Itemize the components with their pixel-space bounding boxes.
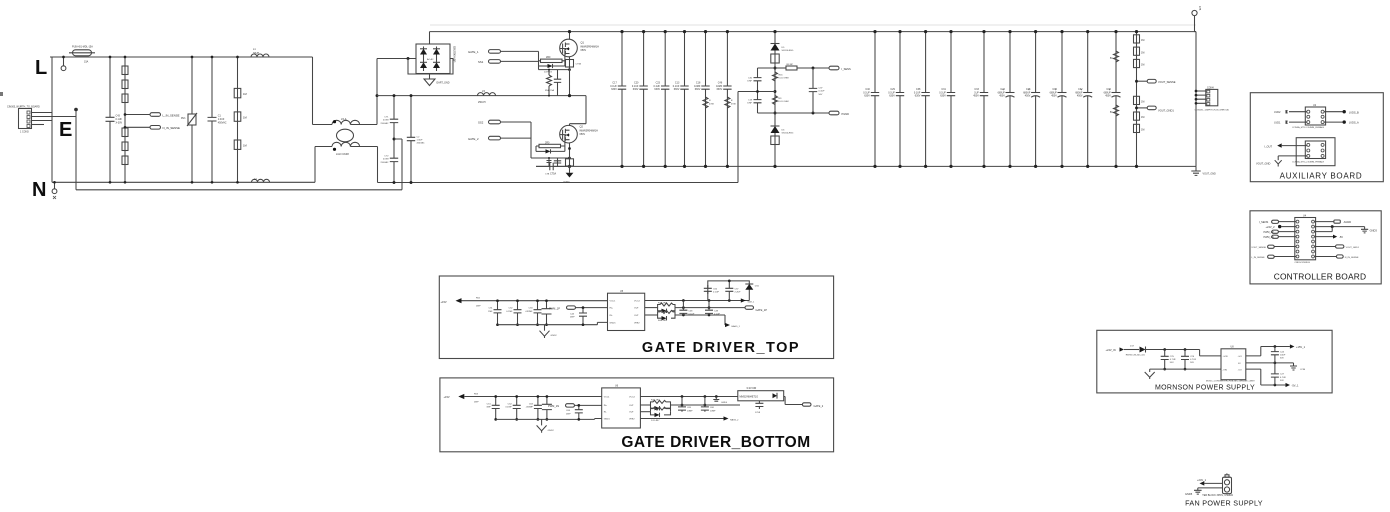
svg-text:LVD1: LVD1 bbox=[1274, 121, 1281, 125]
svg-text:4.7UF: 4.7UF bbox=[1280, 377, 1287, 379]
svg-text:472M: 472M bbox=[383, 120, 389, 122]
wire +VO riser bbox=[1246, 347, 1290, 356]
ground GND2 top driver bbox=[540, 325, 558, 338]
CONTROLLER BOARD box bbox=[1250, 211, 1381, 284]
wire earth riser to Y-cap mid bbox=[394, 139, 402, 190]
GATE DRIVER_TOP box bbox=[439, 276, 833, 359]
svg-text:COM: COM bbox=[1300, 369, 1305, 371]
node I_OUT bbox=[1264, 143, 1307, 148]
svg-text:1 CON3: 1 CON3 bbox=[20, 131, 29, 134]
GATE DRIVER_BOTTOM box bbox=[440, 378, 834, 452]
capacitor C66 bbox=[701, 397, 716, 413]
svg-text:+24V_IN: +24V_IN bbox=[1106, 348, 1116, 352]
svg-text:FUB-H01-MDL-15A: FUB-H01-MDL-15A bbox=[72, 46, 93, 49]
resistor R17 2R0 bbox=[536, 141, 565, 147]
capacitor C13 bbox=[673, 30, 689, 168]
svg-text:0.01 OHM: 0.01 OHM bbox=[779, 101, 789, 103]
svg-text:1P5: 1P5 bbox=[1198, 6, 1201, 11]
svg-text:RB751CM-40C-115: RB751CM-40C-115 bbox=[1126, 354, 1146, 356]
svg-text:N_IN_SENSE: N_IN_SENSE bbox=[1345, 257, 1359, 259]
svg-text:OUT: OUT bbox=[634, 315, 639, 317]
capacitor CY1 bbox=[381, 94, 399, 139]
wire bridge plus stub bbox=[429, 32, 431, 44]
capacitor C63 bbox=[525, 395, 541, 421]
svg-text:CIN005_WURTH_TO_BOARD: CIN005_WURTH_TO_BOARD bbox=[7, 106, 40, 109]
connector SS1 bbox=[478, 60, 539, 64]
connector L_IN_SENSE bbox=[150, 113, 180, 118]
svg-text:DNP: DNP bbox=[566, 413, 571, 415]
svg-text:GND2: GND2 bbox=[551, 335, 558, 337]
connector GATE_1 bbox=[468, 50, 539, 54]
capacitor C23 bbox=[653, 30, 669, 168]
svg-text:GND1: GND1 bbox=[604, 419, 611, 421]
wire DC top rail bbox=[430, 31, 1197, 33]
svg-text:GATE_2: GATE_2 bbox=[814, 404, 824, 408]
svg-text:VOUT_GND: VOUT_GND bbox=[1256, 162, 1271, 166]
svg-text:450V: 450V bbox=[973, 95, 979, 98]
op-amp U3 bbox=[1292, 141, 1326, 163]
svg-text:CT5B: CT5B bbox=[576, 64, 582, 66]
wire gate return Q1 bbox=[539, 66, 571, 71]
resistor R43 bbox=[645, 302, 675, 307]
svg-text:I_SENS: I_SENS bbox=[1259, 220, 1269, 224]
wire U6 out1 bbox=[640, 395, 737, 398]
svg-text:DNP: DNP bbox=[570, 317, 575, 319]
svg-text:SS310-R6G: SS310-R6G bbox=[782, 133, 794, 135]
svg-text:X-30V: X-30V bbox=[116, 122, 123, 125]
AUXILIARY BOARD box bbox=[1250, 93, 1383, 182]
inductor L5 bbox=[478, 89, 496, 104]
resistor R16 shunt bbox=[773, 67, 789, 81]
svg-text:OUT: OUT bbox=[629, 412, 634, 414]
resistor chain R4-R6 lower bbox=[122, 128, 128, 165]
svg-text:630V: 630V bbox=[695, 88, 701, 91]
resistor R51 snubber bbox=[1110, 105, 1119, 116]
resistor divider R7 1M bbox=[234, 56, 246, 184]
diode D5 bbox=[771, 30, 794, 166]
wire connector pin4 bbox=[32, 124, 45, 126]
svg-text:DNP: DNP bbox=[476, 306, 481, 308]
capacitor C28 bbox=[1023, 30, 1040, 168]
test point TP2 on N bbox=[52, 181, 57, 199]
svg-text:1M: 1M bbox=[1141, 51, 1144, 54]
svg-text:PWM_1N: PWM_1N bbox=[548, 404, 559, 408]
wire N sense tap bbox=[124, 126, 150, 129]
wire gate to Q2 bbox=[560, 135, 565, 152]
ic U5 driver bbox=[608, 290, 645, 331]
svg-text:D11 4R7: D11 4R7 bbox=[651, 420, 660, 422]
svg-text:VOUT_GND1: VOUT_GND1 bbox=[1346, 247, 1360, 249]
wire bridge AC2 loop bbox=[408, 59, 453, 75]
svg-text:450VAC: 450VAC bbox=[417, 142, 425, 145]
terminal VOUT+ bbox=[1192, 6, 1201, 32]
svg-text:VOUT_SENSE: VOUT_SENSE bbox=[1251, 247, 1266, 249]
svg-text:1M: 1M bbox=[1141, 64, 1144, 67]
ghost artifact line bbox=[430, 24, 1196, 26]
connector VOUT_SENSE bbox=[1135, 79, 1176, 84]
svg-text:2R0: 2R0 bbox=[545, 141, 550, 144]
svg-text:SS1: SS1 bbox=[478, 60, 484, 64]
current transformer CT5A bbox=[550, 159, 574, 176]
wire bootstrap loop bbox=[708, 281, 750, 301]
diode D11 bbox=[651, 412, 671, 422]
connector PWM_1P ctrl bbox=[1264, 230, 1297, 234]
inductor L2 bbox=[252, 178, 270, 182]
op-amp U2 bbox=[1292, 104, 1326, 129]
svg-text:0.1MF: 0.1MF bbox=[505, 407, 512, 409]
connector VOUT_GND1 ctrl bbox=[1315, 245, 1360, 249]
wire L rail corner down bbox=[312, 57, 314, 125]
connector L_IN_SENSE ctrl bbox=[1251, 255, 1296, 259]
svg-text:1M: 1M bbox=[1141, 129, 1144, 132]
svg-text:R8 NP: R8 NP bbox=[787, 64, 794, 66]
node HVG5_1 bbox=[725, 315, 741, 328]
svg-text:250VAC: 250VAC bbox=[381, 122, 389, 125]
wire gate to Q1 bbox=[560, 49, 565, 67]
wire feedback loop U3 bbox=[1296, 138, 1335, 166]
capacitor C65 bbox=[678, 397, 693, 413]
ground GND2 bottom driver bbox=[537, 419, 555, 432]
connector PWM_1N driver bbox=[548, 404, 602, 408]
svg-text:R43 4R7: R43 4R7 bbox=[658, 302, 667, 304]
svg-text:IN-: IN- bbox=[604, 412, 607, 414]
wire shunt kelvin return bbox=[738, 90, 775, 182]
svg-text:+15V: +15V bbox=[444, 395, 450, 399]
resistor bleeder at C46 bbox=[725, 97, 737, 108]
svg-text:1M: 1M bbox=[243, 92, 247, 96]
svg-text:650V: 650V bbox=[581, 49, 587, 52]
svg-text:+24V_2: +24V_2 bbox=[1266, 225, 1276, 229]
resistor chain R1-R3 upper bbox=[122, 56, 128, 184]
svg-text:630V: 630V bbox=[611, 88, 617, 91]
wire mornson lower rail bbox=[1150, 368, 1221, 370]
svg-text:450VAC: 450VAC bbox=[218, 122, 227, 125]
capacitor C40 bbox=[863, 30, 879, 168]
wire AC return bottom line bbox=[378, 182, 739, 184]
capacitor C25 bbox=[1161, 350, 1177, 371]
svg-text:SS2: SS2 bbox=[478, 121, 484, 125]
connector GATE_1P bbox=[745, 306, 767, 312]
svg-text:3.3V DR: 3.3V DR bbox=[746, 386, 756, 390]
svg-text:0.1MF: 0.1MF bbox=[506, 311, 513, 313]
wire gate return Q2 bbox=[531, 157, 571, 160]
svg-text:GATE DRIVER_BOTTOM: GATE DRIVER_BOTTOM bbox=[621, 434, 810, 451]
wire lower sense tap bbox=[775, 112, 829, 115]
svg-text:450V: 450V bbox=[1025, 95, 1031, 98]
svg-text:FAN POWER SUPPLY: FAN POWER SUPPLY bbox=[1185, 498, 1263, 507]
svg-text:Q2: Q2 bbox=[580, 125, 584, 129]
wire connector pin N bbox=[32, 120, 53, 122]
capacitor C60 bbox=[542, 395, 552, 421]
svg-text:450V: 450V bbox=[1105, 95, 1111, 98]
connector I_SENS ctrl bbox=[1259, 220, 1296, 224]
svg-text:0.1UF: 0.1UF bbox=[713, 292, 720, 294]
ground GND5 fan bbox=[1185, 488, 1223, 496]
capacitor C38 bbox=[914, 30, 930, 168]
svg-text:VCC2: VCC2 bbox=[634, 301, 641, 303]
svg-text:GAT_1: GAT_1 bbox=[748, 301, 756, 304]
svg-text:1M: 1M bbox=[243, 144, 247, 148]
wire N bottom rail bbox=[52, 181, 315, 183]
resistor divider upper 1M x3 bbox=[1134, 30, 1145, 168]
svg-text:1MF: 1MF bbox=[486, 407, 491, 409]
capacitor C18 bbox=[694, 30, 710, 168]
svg-text:0.1UF: 0.1UF bbox=[819, 91, 826, 93]
node 24V_2 bbox=[1266, 225, 1297, 229]
svg-text:D4 R6G: D4 R6G bbox=[544, 72, 552, 74]
svg-text:1MF: 1MF bbox=[488, 311, 493, 313]
capacitor C52 bbox=[506, 299, 521, 326]
mosfet Q1 bbox=[560, 39, 599, 57]
svg-text:VEE2: VEE2 bbox=[634, 322, 640, 324]
svg-text:0.1UF: 0.1UF bbox=[688, 314, 695, 316]
svg-text:VCC1: VCC1 bbox=[604, 397, 611, 399]
wire choke top output bbox=[350, 124, 377, 126]
ground PGND Q2 bbox=[564, 166, 574, 183]
svg-text:IMW65R048M1H: IMW65R048M1H bbox=[580, 129, 599, 132]
mcu U4 bbox=[1295, 214, 1316, 263]
svg-text:1M: 1M bbox=[1141, 116, 1144, 119]
ground GND3 bbox=[1361, 227, 1377, 233]
svg-text:TER BLOCK 3POS, 3.5MM4: TER BLOCK 3POS, 3.5MM4 bbox=[1202, 494, 1233, 497]
connector GATE_2 bbox=[468, 136, 531, 141]
svg-text:0.01 OHM: 0.01 OHM bbox=[779, 78, 789, 80]
diode D6 bbox=[771, 126, 794, 168]
capacitor C64 bbox=[566, 404, 583, 421]
svg-text:MOSC_CONVERTER_PDB_MC_URB48E_L: MOSC_CONVERTER_PDB_MC_URB48E_LMNT bbox=[1206, 380, 1255, 382]
capacitor C46 bbox=[716, 30, 732, 168]
svg-text:450V: 450V bbox=[999, 95, 1005, 98]
svg-text:VOUT_SENSE: VOUT_SENSE bbox=[1158, 80, 1176, 84]
node +15V_1 top driver bbox=[441, 298, 608, 308]
wire Q2 source bbox=[568, 143, 571, 168]
capacitor C26 bbox=[1181, 350, 1197, 371]
wire L top rail bbox=[50, 56, 313, 58]
test point TP1 on L bbox=[61, 56, 66, 71]
svg-text:LVDS_B: LVDS_B bbox=[1349, 110, 1359, 114]
svg-text:-5V_1: -5V_1 bbox=[1292, 384, 1299, 388]
wire DC bottom rail bbox=[536, 165, 1196, 167]
svg-text:GATE DRIVER_TOP: GATE DRIVER_TOP bbox=[642, 340, 800, 356]
svg-text:50V: 50V bbox=[819, 94, 823, 96]
svg-text:GATE_1P: GATE_1P bbox=[756, 308, 768, 312]
node -5V_1 out bbox=[1274, 383, 1299, 388]
svg-text:L: L bbox=[35, 57, 47, 79]
connector VOUT_GND1 bbox=[1135, 106, 1174, 113]
svg-text:450V: 450V bbox=[1077, 95, 1083, 98]
svg-text:15A: 15A bbox=[84, 60, 89, 63]
connector J1 AC input bbox=[7, 106, 40, 134]
svg-text:LGO CK48: LGO CK48 bbox=[336, 152, 349, 156]
wire U5 out1 bbox=[645, 299, 750, 302]
svg-text:AC AC: AC AC bbox=[427, 58, 434, 61]
ground EART_GND bbox=[424, 74, 450, 86]
node HVG5_2 bbox=[640, 416, 739, 421]
svg-text:-5V: -5V bbox=[1339, 235, 1343, 239]
terminal block J6 fan bbox=[1223, 474, 1232, 494]
connector PWM_1N ctrl bbox=[1264, 235, 1297, 239]
diode D8 bbox=[658, 306, 745, 313]
resistor R5C bbox=[547, 157, 552, 166]
connector AGND ctrl bbox=[1315, 220, 1352, 224]
resistor R9 1M bbox=[234, 140, 246, 149]
connector VOUT_GND2 bbox=[1256, 156, 1307, 167]
svg-text:R45 4R7: R45 4R7 bbox=[651, 400, 660, 402]
capacitor C51 bbox=[488, 299, 501, 326]
svg-text:GND1: GND1 bbox=[610, 322, 617, 324]
capacitor C29 bbox=[888, 30, 904, 168]
mosfet Q2 bbox=[560, 125, 598, 143]
wire choke bottom riser bbox=[377, 147, 379, 183]
svg-text:10MF: 10MF bbox=[687, 410, 693, 412]
capacitor C37 bbox=[809, 68, 825, 113]
connector PWM_1P driver bbox=[549, 306, 608, 310]
capacitor C19 bbox=[747, 92, 775, 114]
svg-text:Q1: Q1 bbox=[581, 41, 585, 45]
svg-text:0.1UF: 0.1UF bbox=[714, 314, 721, 316]
svg-text:JC58: JC58 bbox=[755, 412, 761, 414]
resistor R44 bbox=[645, 310, 675, 322]
wire Q1 drain bbox=[568, 30, 571, 39]
svg-text:630V: 630V bbox=[940, 95, 946, 98]
svg-text:50V: 50V bbox=[1190, 362, 1194, 364]
wire step to module bbox=[1200, 350, 1221, 356]
capacitor C22 bbox=[998, 30, 1015, 168]
svg-text:CON5A_MTC-2.54MM_FEMALE: CON5A_MTC-2.54MM_FEMALE bbox=[1292, 126, 1325, 129]
resistor divider lower 1M x3 bbox=[1134, 96, 1145, 132]
resistor R10 2R0 bbox=[539, 56, 565, 62]
svg-text:VOUT_GND: VOUT_GND bbox=[1203, 172, 1217, 175]
svg-text:1.5UF: 1.5UF bbox=[417, 140, 424, 142]
wire U2 right pin1 bbox=[1324, 111, 1343, 113]
svg-text:C7B: C7B bbox=[545, 174, 550, 176]
ground COM bbox=[1290, 363, 1305, 371]
svg-text:MMSZ4684ET1G: MMSZ4684ET1G bbox=[740, 396, 759, 399]
resistor bleeder at C18 bbox=[703, 97, 715, 108]
wire driver top lower rail bbox=[498, 322, 608, 324]
svg-text:50V: 50V bbox=[1280, 358, 1284, 360]
svg-text:HAG5_1: HAG5_1 bbox=[732, 325, 741, 328]
svg-text:4.7UF: 4.7UF bbox=[1190, 359, 1197, 361]
wire Q1 source bbox=[569, 57, 571, 96]
svg-text:CON4X1_13MPITCH_M_SHROUD: CON4X1_13MPITCH_M_SHROUD bbox=[1195, 109, 1230, 111]
connector CON4 output bbox=[1195, 86, 1230, 111]
svg-text:-VO: -VO bbox=[1238, 369, 1242, 371]
capacitor C17 bbox=[610, 30, 626, 168]
wire ctrl gnd row bbox=[1315, 225, 1365, 231]
wire -VO riser bbox=[1246, 369, 1286, 385]
diode D16 bbox=[745, 284, 759, 290]
resistor R8 sense tap bbox=[775, 64, 829, 70]
svg-text:PWM_1P: PWM_1P bbox=[549, 306, 560, 310]
node switch junction bbox=[568, 94, 571, 97]
wire gate node Q1 bbox=[538, 51, 540, 66]
svg-text:+24V_1: +24V_1 bbox=[1197, 478, 1207, 482]
node +15V_1 bottom driver bbox=[444, 394, 602, 404]
wire connector pins bbox=[1195, 90, 1206, 105]
capacitor C7B bbox=[536, 163, 570, 176]
svg-text:470K: 470K bbox=[709, 104, 715, 106]
capacitor C48 bbox=[679, 301, 695, 316]
capacitor C31 bbox=[939, 30, 955, 168]
capacitor C33 bbox=[973, 30, 988, 168]
node +15V_1 out bbox=[1274, 344, 1306, 349]
capacitor C43 bbox=[106, 56, 123, 184]
node E junction dot bbox=[74, 108, 78, 190]
diode D10 bbox=[651, 404, 741, 411]
resistor R5A bbox=[547, 69, 552, 97]
svg-text:+15V_1: +15V_1 bbox=[1296, 345, 1306, 349]
connector N_IN_SENSE bbox=[150, 126, 180, 131]
svg-text:IMW65R048M1H: IMW65R048M1H bbox=[581, 45, 600, 48]
node +24V_IN bbox=[1106, 347, 1140, 352]
svg-text:630V: 630V bbox=[915, 95, 921, 98]
wire N rail corner up bbox=[314, 147, 316, 183]
svg-text:GATE_1: GATE_1 bbox=[468, 50, 479, 54]
resistor R8 1M bbox=[234, 112, 246, 121]
ground mornson input bbox=[1145, 369, 1155, 379]
fuse F1 bbox=[69, 46, 95, 64]
zener Z1 MMSZ4684ET1G bbox=[738, 386, 784, 401]
svg-text:+VIN: +VIN bbox=[1223, 356, 1228, 358]
capacitor C62 bbox=[505, 395, 520, 421]
svg-text:OUT: OUT bbox=[629, 405, 634, 407]
connector LVD2 bbox=[1274, 110, 1287, 114]
svg-text:PGND: PGND bbox=[564, 182, 571, 184]
svg-text:630V: 630V bbox=[864, 95, 870, 98]
node LVDS_A bbox=[1343, 120, 1360, 124]
choke core bbox=[337, 129, 354, 142]
connector N_IN_SENSE ctrl bbox=[1315, 255, 1359, 259]
svg-text:4.7UF: 4.7UF bbox=[1170, 359, 1177, 361]
svg-text:30UH: 30UH bbox=[253, 52, 259, 55]
capacitor C2 bbox=[407, 94, 425, 184]
diode D9 bbox=[658, 314, 725, 321]
svg-text:CON5A_MTC-2.54MM_FEMALE: CON5A_MTC-2.54MM_FEMALE bbox=[1292, 160, 1325, 163]
capacitor C58 bbox=[755, 401, 763, 414]
svg-text:630V: 630V bbox=[889, 95, 895, 98]
capacitor C5C bbox=[554, 158, 561, 166]
svg-text:1M: 1M bbox=[243, 115, 247, 119]
diode D7 bbox=[536, 146, 565, 154]
wire 0V rail bbox=[1246, 362, 1294, 365]
svg-text:AGND: AGND bbox=[1344, 220, 1352, 224]
wire output riser bbox=[1195, 32, 1197, 167]
svg-text:+VO: +VO bbox=[1238, 356, 1243, 358]
capacitor C24 bbox=[1271, 347, 1286, 363]
ic U6 driver bbox=[602, 385, 641, 429]
svg-text:630V: 630V bbox=[717, 88, 723, 91]
node GAT_1 bbox=[741, 298, 755, 303]
svg-text:-VIN: -VIN bbox=[1223, 369, 1228, 371]
capacitor C1 bbox=[208, 56, 227, 184]
capacitor C57 bbox=[725, 280, 741, 301]
inductor L1 bbox=[251, 48, 269, 57]
svg-text:250UH: 250UH bbox=[478, 101, 486, 104]
node LVDS_B bbox=[1343, 110, 1360, 114]
svg-text:GATE_2: GATE_2 bbox=[468, 137, 479, 141]
ground VOUT_GND bbox=[1191, 166, 1216, 175]
common-mode choke bottom winding bbox=[332, 142, 360, 156]
connector SS2 bbox=[478, 120, 531, 124]
capacitor C53 bbox=[525, 299, 541, 326]
svg-text:LVD2: LVD2 bbox=[1274, 110, 1281, 114]
svg-text:I_OUT: I_OUT bbox=[1264, 144, 1272, 148]
diode D4 bbox=[539, 64, 565, 74]
svg-text:10MF: 10MF bbox=[710, 410, 716, 412]
capacitor C5A bbox=[545, 70, 561, 96]
wire U2 left pin3 bbox=[1289, 121, 1307, 123]
